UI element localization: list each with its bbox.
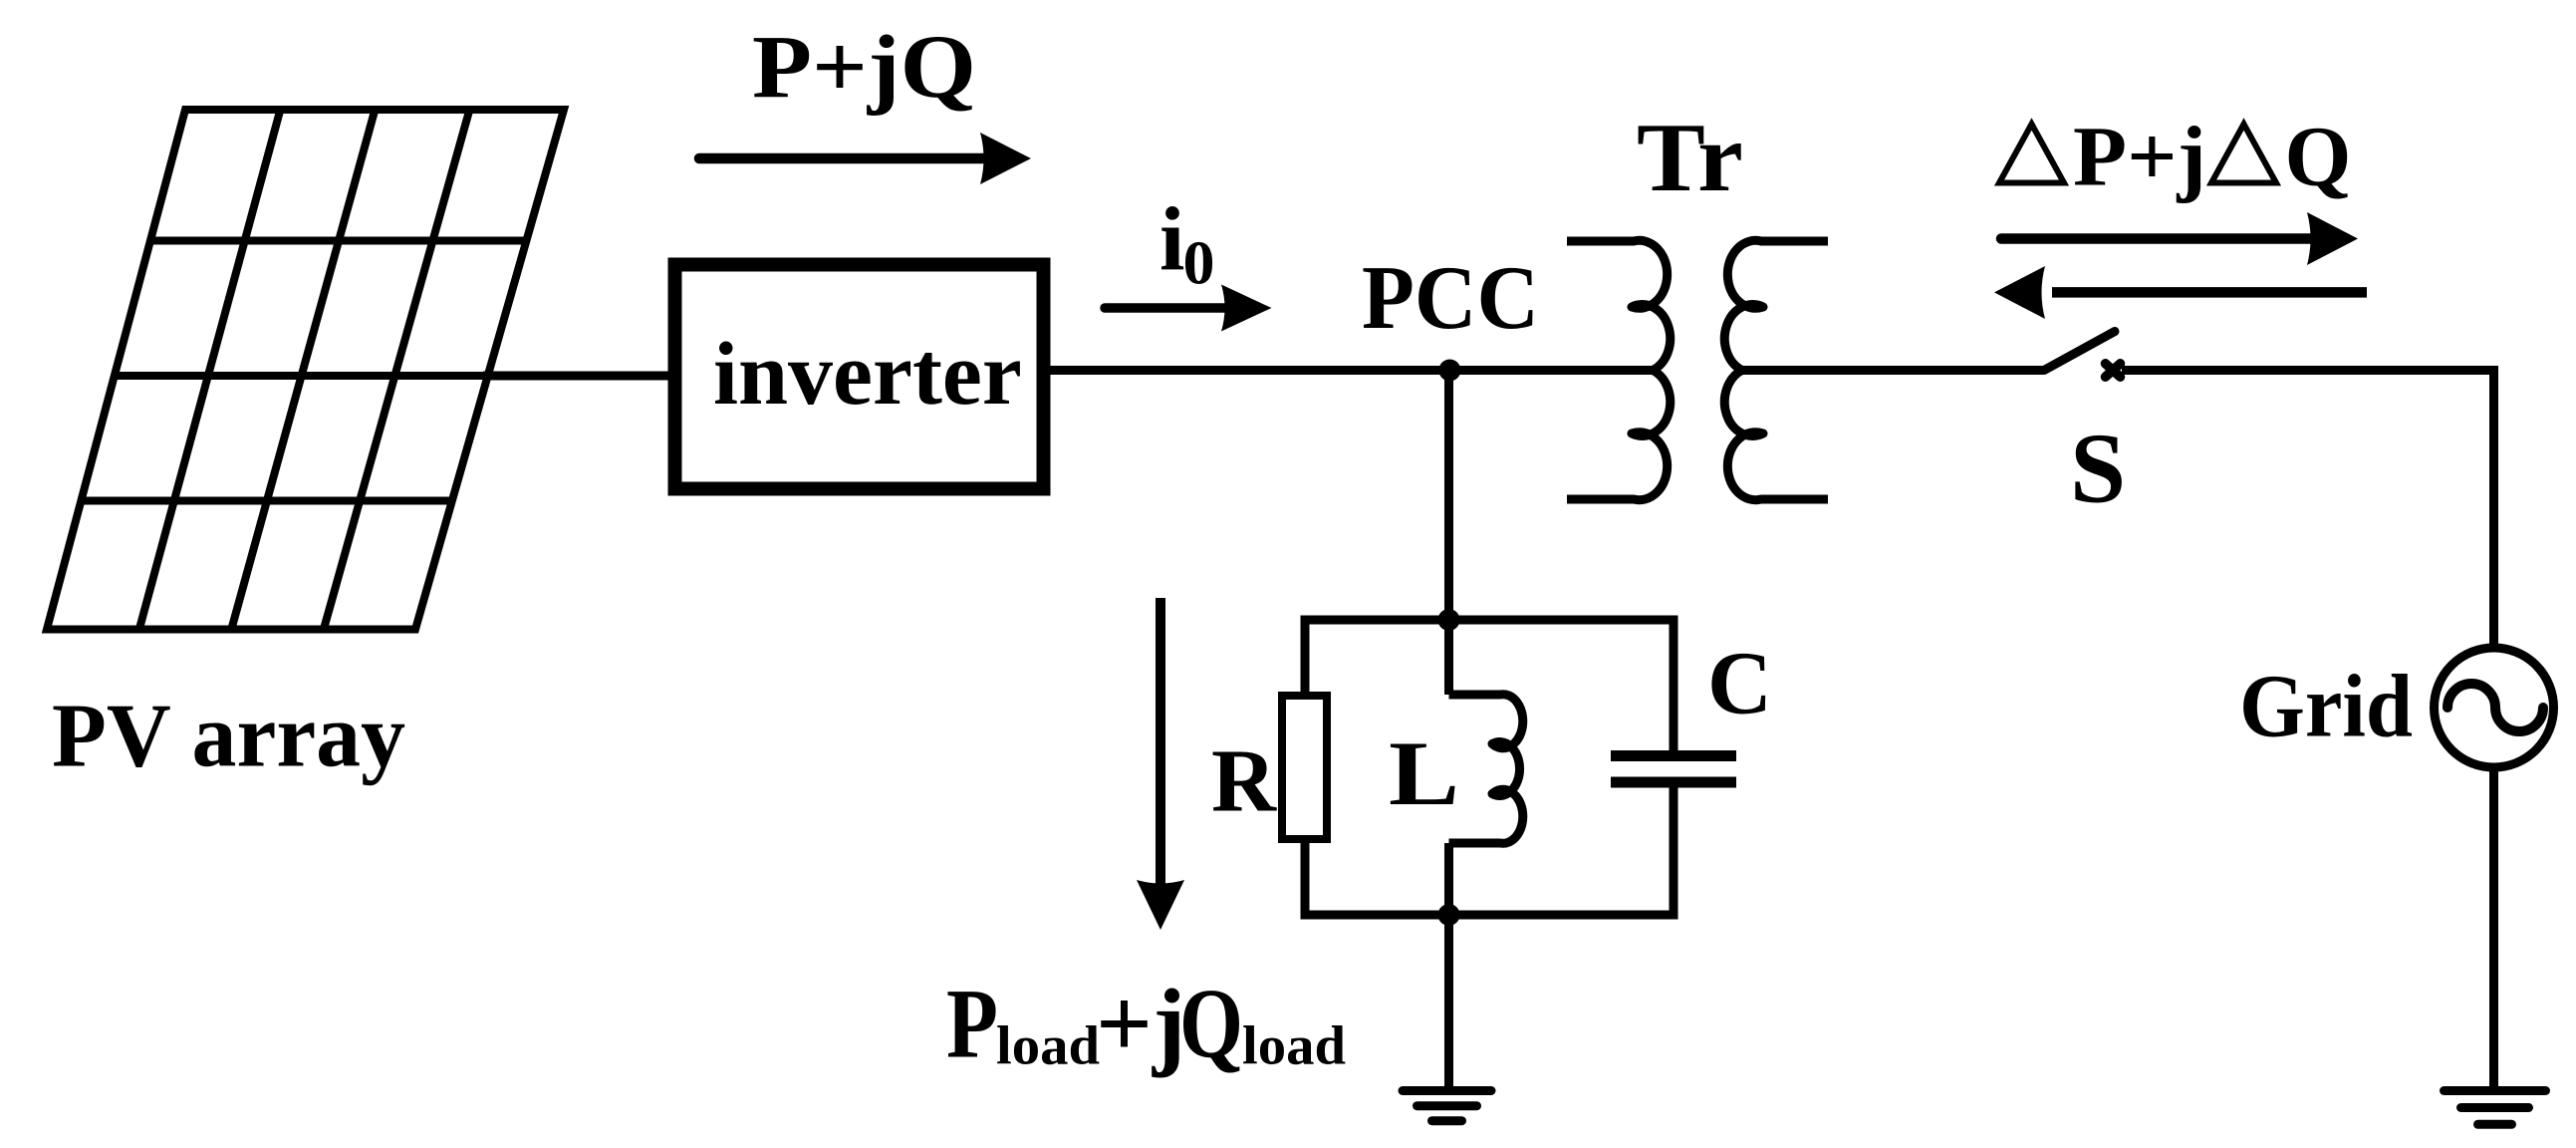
svg-text:inverter: inverter: [713, 325, 1022, 424]
ground load: [1403, 1091, 1491, 1121]
arrow load current down: [1137, 598, 1184, 930]
svg-text:i: i: [1159, 188, 1184, 290]
wire load bottom bus: [1301, 911, 1678, 920]
wire load to ground: [1444, 915, 1453, 1091]
AC source Grid circle: [2435, 648, 2554, 767]
switch S contact x mark: [2106, 364, 2121, 377]
arrow P+jQ: [699, 133, 1031, 184]
wire PV to inverter: [483, 372, 669, 381]
node load top junction: [1438, 609, 1460, 631]
wire inverter to PCC: [1050, 366, 1653, 375]
AC source sine wave: [2447, 684, 2543, 731]
wire L branch top: [1444, 620, 1453, 695]
wire R branch bottom: [1301, 839, 1310, 915]
svg-text:PCC: PCC: [1362, 247, 1539, 348]
inverter box: [675, 265, 1044, 489]
svg-text:Q: Q: [1179, 969, 1243, 1079]
svg-text:Tr: Tr: [1637, 104, 1743, 212]
arrow deltaP right: [2001, 212, 2358, 265]
transformer Tr secondary winding: [1724, 240, 1828, 499]
wire load top bus: [1301, 616, 1678, 625]
svg-text:C: C: [1707, 634, 1772, 732]
resistor R body: [1282, 696, 1327, 839]
wire R branch top: [1301, 620, 1310, 696]
svg-text:0: 0: [1183, 230, 1215, 298]
ground grid: [2445, 1091, 2546, 1125]
label deltaP+j deltaQ: [1999, 109, 2351, 204]
arrow deltaP left: [1994, 266, 2367, 319]
svg-text:P+j: P+j: [2073, 109, 2206, 204]
svg-text:R: R: [1211, 732, 1277, 831]
svg-text:load: load: [996, 1015, 1100, 1076]
wire C branch top: [1670, 620, 1678, 751]
node load bottom junction: [1438, 904, 1460, 926]
wire switch to grid branch: [2122, 371, 2494, 651]
svg-text:PV array: PV array: [52, 685, 405, 785]
PV array panel: [47, 110, 564, 630]
svg-text:load: load: [1242, 1015, 1346, 1076]
wire transformer to switch: [1742, 366, 2044, 375]
switch S blade: [2044, 332, 2115, 371]
transformer Tr primary winding: [1567, 240, 1671, 499]
wire C branch bottom: [1670, 788, 1678, 916]
wire L branch bottom: [1444, 843, 1453, 915]
capacitor C plates: [1611, 756, 1736, 783]
svg-text:Q: Q: [2285, 109, 2352, 204]
svg-text:L: L: [1389, 722, 1459, 824]
inductor L coil: [1449, 695, 1523, 844]
wire PCC down to load: [1444, 371, 1453, 621]
svg-text:+j: +j: [1096, 969, 1185, 1079]
label Pload+jQload: [946, 969, 1346, 1079]
arrow i0: [1105, 285, 1272, 332]
svg-text:P+jQ: P+jQ: [752, 18, 976, 117]
svg-text:P: P: [946, 969, 998, 1079]
svg-text:S: S: [2070, 412, 2126, 523]
wire AC source to ground: [2489, 765, 2498, 1091]
svg-text:Grid: Grid: [2239, 658, 2413, 756]
node PCC junction dot: [1438, 360, 1460, 382]
label i0: [1159, 188, 1215, 298]
